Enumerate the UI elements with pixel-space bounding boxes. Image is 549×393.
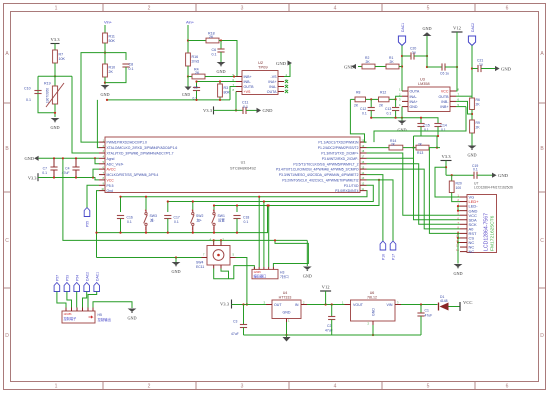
resistor R9 <box>470 120 475 133</box>
resistor R6 <box>470 98 475 110</box>
wire <box>375 66 386 68</box>
svg-text:+VS: +VS <box>244 90 251 94</box>
svg-text:INA+: INA+ <box>410 100 418 104</box>
MCU pin R5 P3.5/T1/T0CLKO/SS_4/PWM5/PWMFLT_2 <box>360 163 367 165</box>
wire <box>104 77 106 85</box>
svg-text:2K: 2K <box>354 104 359 108</box>
resistor R10 <box>103 64 108 77</box>
wire <box>449 306 461 308</box>
wire R13 right <box>429 147 437 149</box>
svg-text:R7: R7 <box>59 53 64 57</box>
svg-text:TP09: TP09 <box>258 65 268 70</box>
connector pin DAC1 <box>94 283 100 292</box>
svg-text:GND: GND <box>410 105 418 109</box>
svg-text:R8: R8 <box>356 90 360 94</box>
wire riser to R14/R13 row <box>413 136 415 148</box>
wire R8 left drop to MCU P1.1 <box>350 99 366 142</box>
svg-text:P55: P55 <box>86 221 90 227</box>
resistor R2 <box>358 66 362 68</box>
svg-text:HT7333: HT7333 <box>279 295 292 299</box>
header H5 <box>62 311 95 323</box>
svg-text:50K: 50K <box>109 39 116 43</box>
svg-text:0.1: 0.1 <box>212 53 217 57</box>
wire P53 to H5 <box>67 292 72 308</box>
wire H3 pin2 from key1 rail <box>258 197 260 267</box>
svg-text:2: 2 <box>148 6 151 12</box>
wire key3 drops <box>213 206 215 211</box>
capacitor C4 <box>72 166 79 168</box>
svg-text:2K: 2K <box>209 35 214 39</box>
svg-text:0.1: 0.1 <box>244 220 249 224</box>
svg-text:6: 6 <box>506 6 509 12</box>
svg-text:GND: GND <box>276 61 287 66</box>
svg-text:LCD12864-FM1721625ct6: LCD12864-FM1721625ct6 <box>474 186 513 190</box>
svg-text:DAC2: DAC2 <box>471 23 475 32</box>
svg-text:0.1: 0.1 <box>174 220 179 224</box>
svg-text:INB+: INB+ <box>244 75 252 79</box>
wire <box>187 66 189 77</box>
resistor R13 <box>416 145 429 150</box>
svg-text:EC11: EC11 <box>196 265 204 269</box>
wire VCC rail <box>38 178 99 180</box>
connector pin DAC2 <box>84 283 90 292</box>
svg-text:C10: C10 <box>24 87 31 91</box>
svg-text:Ain+: Ain+ <box>186 20 195 25</box>
gnd flag (Agnd rail) <box>34 156 38 161</box>
svg-text:2: 2 <box>148 384 151 390</box>
wire branch to VG <box>435 167 460 197</box>
wire <box>403 147 416 149</box>
svg-text:78L12: 78L12 <box>367 295 377 299</box>
svg-text:Gnd: Gnd <box>107 189 114 193</box>
svg-text:P57: P57 <box>56 275 60 281</box>
node Vin divider tap <box>104 52 106 54</box>
MCU pin R2 P1.2/ADC2/PWM2P/SS/T2 <box>360 147 367 149</box>
svg-text:U1: U1 <box>241 161 246 165</box>
svg-text:C17: C17 <box>174 215 180 219</box>
svg-text:VIN: VIN <box>387 303 393 307</box>
svg-text:INB-: INB- <box>244 80 252 84</box>
resistor R18 (feedback top) <box>188 40 206 42</box>
svg-text:0.1: 0.1 <box>243 105 248 109</box>
svg-text:5: 5 <box>427 6 430 12</box>
resistor R16 shunt <box>186 53 191 66</box>
MCU pin R6 P3.4/T0/T1CLKO/MOSI_4/PWM4B_4/PWM5_2/CMPO <box>360 168 367 170</box>
svg-text:C6: C6 <box>212 48 217 52</box>
capacitor C3 <box>243 305 245 325</box>
svg-text:OUTA: OUTA <box>410 90 420 94</box>
svg-text:ADC_Vref+: ADC_Vref+ <box>107 162 124 166</box>
resistor R12 <box>379 97 390 102</box>
svg-text:P3.5/T1/T0CLKO/SS_4/PWM5/PWMFL: P3.5/T1/T0CLKO/SS_4/PWM5/PWMFLT_2 <box>293 162 358 166</box>
svg-text:P3.4/T0/T1CLKO/MOSI_4/PWM4B_4/: P3.4/T0/T1CLKO/MOSI_4/PWM4B_4/PWM5_2/CMP… <box>276 168 359 172</box>
thermistor R19 <box>54 76 56 86</box>
connector pin P57 <box>54 283 60 292</box>
wire C14 bottoms riser right <box>436 136 438 148</box>
wire <box>38 76 55 113</box>
MCU pin L7 MCLKO/RST/SS_3/PWM6_2/P5.4 <box>99 174 105 176</box>
svg-text:OUTB: OUTB <box>439 95 450 99</box>
capacitor C12 <box>370 99 372 107</box>
svg-text:C16: C16 <box>127 215 133 219</box>
wire INB- jog to divider node <box>456 101 472 114</box>
wire <box>38 75 72 77</box>
ground (R9) <box>468 146 477 149</box>
svg-text:GND: GND <box>127 316 136 321</box>
MCU pin L2 XTALO/MCLKO_2/RXD_3/PWM4P/ADC6/P1.6 <box>99 147 105 149</box>
gnd flag + R2 R1 divider <box>351 64 356 69</box>
MCU pin R10 P3.0/RXD/INT4 <box>360 190 367 192</box>
svg-text:OUT: OUT <box>274 303 282 307</box>
wire <box>54 44 56 51</box>
wire <box>471 96 473 98</box>
svg-text:LM358: LM358 <box>418 82 430 86</box>
svg-text:P3.6/INT2/RXD_2/CMP-: P3.6/INT2/RXD_2/CMP- <box>322 157 359 161</box>
wire P3.5 to LCD SCK <box>367 164 461 225</box>
wire <box>104 43 106 64</box>
svg-text:0.1: 0.1 <box>387 111 392 115</box>
svg-text:C8: C8 <box>129 63 134 67</box>
node <box>220 39 222 41</box>
node <box>104 82 106 84</box>
ground (LCD) <box>454 264 463 267</box>
wire +VS down to V3.3/C11 node <box>235 92 237 111</box>
capacitor C6 <box>220 41 222 50</box>
MCU pin R4 P3.6/INT2/RXD_2/CMP- <box>360 157 367 159</box>
ground (thermistor) <box>51 118 60 121</box>
ground (U3) <box>401 118 403 121</box>
svg-text:GND: GND <box>283 311 291 315</box>
wire wrap rail key2 <box>168 185 373 201</box>
svg-text:1907/3950: 1907/3950 <box>46 88 50 103</box>
svg-text:GND: GND <box>467 153 476 158</box>
wire OUTB chain: R6 <box>456 95 472 97</box>
svg-text:MCLKO/RST/SS_3/PWM6_2/P5.4: MCLKO/RST/SS_3/PWM6_2/P5.4 <box>107 173 159 177</box>
svg-text:C4: C4 <box>65 166 69 170</box>
wire gnd rail 2 <box>63 158 307 240</box>
svg-text:4: 4 <box>334 6 337 12</box>
svg-text:IN: IN <box>295 303 299 307</box>
svg-text:V12: V12 <box>322 285 331 290</box>
wire SW4 pins up to rail <box>213 240 215 241</box>
svg-text:H5: H5 <box>98 313 102 317</box>
wire <box>445 161 447 176</box>
svg-text:GND: GND <box>453 271 462 276</box>
wire wrap rail key3 <box>214 180 379 206</box>
wire P3.6 to LCD SDA <box>367 157 414 159</box>
svg-text:GND: GND <box>263 108 274 113</box>
wire -VS to GND flag <box>284 63 290 77</box>
svg-text:GND: GND <box>397 128 406 133</box>
svg-text:SW4: SW4 <box>196 261 203 265</box>
ground (C6) <box>217 62 226 65</box>
svg-text:C1: C1 <box>425 309 429 313</box>
svg-text:2K: 2K <box>195 71 200 75</box>
no-connect INA- <box>285 85 288 88</box>
wire OUTB loop <box>230 87 236 100</box>
MCU pin L8 VCC <box>99 179 105 181</box>
capacitor C17 <box>164 215 171 217</box>
svg-text:Agnd: Agnd <box>107 157 115 161</box>
node <box>187 39 189 41</box>
wire MCU Gnd wrap to key rail <box>97 191 100 258</box>
rotary encoder SW4 EC11 <box>207 246 230 266</box>
svg-text:V3.3: V3.3 <box>203 108 213 113</box>
svg-text:GND: GND <box>372 308 376 316</box>
svg-text:C18: C18 <box>243 215 249 219</box>
svg-text:C6 1u: C6 1u <box>440 72 449 76</box>
svg-text:LCD12864-7567: LCD12864-7567 <box>484 213 490 251</box>
svg-text:1: 1 <box>55 6 58 12</box>
connector pin P16 <box>380 241 386 250</box>
svg-text:0.1: 0.1 <box>26 98 31 102</box>
capacitor C7 <box>50 166 57 168</box>
wire DAC1 down to OUTA <box>401 46 403 92</box>
svg-text:C15: C15 <box>424 124 430 128</box>
capacitor C10 <box>34 90 41 92</box>
svg-text:47uF: 47uF <box>425 314 433 318</box>
capacitor C15 <box>402 118 421 124</box>
svg-text:7针口: 7针口 <box>280 274 289 279</box>
svg-text:XTALO/MCLKO_2/RXD_3/PWM4P/ADC6: XTALO/MCLKO_2/RXD_3/PWM4P/ADC6/P1.6 <box>107 146 178 150</box>
MCU pin R3 P1.3/INT3/TXD_2/CMP+ <box>360 152 367 154</box>
svg-text:GND: GND <box>422 26 431 31</box>
svg-text:12345: 12345 <box>254 270 262 274</box>
MCU pin R7 P3.3/INT1/MESO_4/I2CSDA_4/PWM4N_4/PWMET2 <box>360 174 367 176</box>
wire <box>187 25 189 53</box>
wire <box>446 174 474 176</box>
wire LED-/GND tie <box>457 206 459 211</box>
wire <box>54 63 56 76</box>
capacitor C1 <box>420 305 422 314</box>
MCU pin R9 P3.1/TXD <box>360 184 367 186</box>
wire thermistor tap to MCU P1.7 <box>72 76 99 153</box>
svg-text:0.1: 0.1 <box>362 111 367 115</box>
power flag VCC <box>459 302 461 311</box>
wire <box>399 66 402 68</box>
svg-text:P53: P53 <box>66 275 70 281</box>
svg-text:FM1721625CT6: FM1721625CT6 <box>490 215 496 251</box>
svg-text:INA-: INA- <box>269 85 277 89</box>
capacitor C20 <box>402 55 411 57</box>
resistor R11 <box>103 33 108 43</box>
svg-text:2K: 2K <box>476 126 481 130</box>
wire INB- row <box>197 81 237 83</box>
wire U6 gnd to rail <box>372 325 374 335</box>
MCU pin L10 Gnd <box>99 190 105 192</box>
wire SW4 left pin <box>97 257 202 259</box>
wire U3 GND pin drop <box>401 107 403 118</box>
svg-text:OUTB: OUTB <box>244 85 255 89</box>
wire P54 to H5 <box>76 292 78 308</box>
svg-text:GND: GND <box>24 156 34 161</box>
connector pin P55 <box>84 208 90 217</box>
svg-text:VCC: VCC <box>441 90 449 94</box>
wire H3 pin3 from key2 rail <box>263 202 265 268</box>
ground (Ain divider) <box>187 77 189 87</box>
svg-text:C8: C8 <box>194 86 198 90</box>
svg-text:STC8H8K64S2: STC8H8K64S2 <box>230 167 256 171</box>
svg-text:SW3: SW3 <box>150 214 157 218</box>
svg-text:GND: GND <box>216 69 225 74</box>
resistor R7 <box>53 50 58 63</box>
resistor R1 <box>386 64 399 69</box>
node <box>54 112 56 114</box>
wire Vin tap to MCU P1.0 <box>81 53 105 143</box>
gnd flag (U2 -VS) <box>288 61 293 66</box>
svg-text:GND: GND <box>171 269 180 274</box>
wire filter gnd rail <box>371 117 402 119</box>
MCU pin L5 ADC_Vref+ <box>99 163 105 165</box>
wire H5 gnd pin <box>93 302 132 308</box>
svg-text:DAC1: DAC1 <box>95 272 99 281</box>
resistor R20 <box>451 175 453 181</box>
svg-text:R9: R9 <box>476 121 480 125</box>
wire <box>471 133 473 146</box>
ground (C20) up arrow <box>426 55 428 57</box>
wire INB+ stub <box>456 106 466 108</box>
capacitor C16 <box>117 215 124 217</box>
svg-text:V3.3: V3.3 <box>28 175 37 180</box>
capacitor C13 <box>395 99 397 107</box>
svg-text:INB-: INB- <box>441 100 449 104</box>
wire AVCC jog <box>93 169 99 177</box>
wire DAC1 to H5 <box>88 292 97 308</box>
wire <box>366 98 379 100</box>
capacitor C11 decoupling <box>242 107 244 114</box>
wire P3.4 to LCD A0 <box>367 169 461 229</box>
svg-text:GND: GND <box>182 93 190 97</box>
ground (key rail) <box>306 240 308 266</box>
wire wrap rail key1 <box>121 191 368 197</box>
wire DAC2 to H5 <box>83 292 87 308</box>
svg-text:SW2: SW2 <box>196 214 203 218</box>
svg-text:控制输出: 控制输出 <box>98 317 112 322</box>
svg-text:V3.3: V3.3 <box>441 154 451 159</box>
capacitor C8 (input filter) <box>196 82 198 88</box>
svg-text:R11: R11 <box>109 35 115 39</box>
svg-text:0.1: 0.1 <box>42 171 47 175</box>
svg-text:DAC2: DAC2 <box>85 272 89 281</box>
power gnd rail (bottom) <box>244 334 422 336</box>
svg-text:1u: 1u <box>412 50 416 54</box>
wire <box>214 109 244 111</box>
svg-text:VOUT: VOUT <box>353 303 364 307</box>
svg-text:3: 3 <box>241 384 244 390</box>
connector pin P53 <box>64 283 70 292</box>
wire <box>477 174 492 176</box>
svg-text:C7: C7 <box>43 166 47 170</box>
connector pin P17 <box>390 241 396 250</box>
svg-text:D: D <box>5 333 9 339</box>
svg-text:INB+: INB+ <box>440 105 448 109</box>
svg-text:VCC: VCC <box>463 300 472 305</box>
wire H3 pin4 from key3 rail <box>268 206 270 268</box>
svg-text:0.1: 0.1 <box>127 220 132 224</box>
wire Agnd rail <box>39 157 99 159</box>
svg-text:2K: 2K <box>476 103 481 107</box>
svg-text:D: D <box>540 333 544 339</box>
svg-text:1u: 1u <box>479 62 483 66</box>
capacitor C5 1u <box>441 63 443 70</box>
svg-text:P54: P54 <box>75 275 79 281</box>
wire <box>104 25 106 33</box>
svg-text:控制端子: 控制端子 <box>64 316 78 321</box>
gnd flag (C11) <box>257 108 262 113</box>
wire R12 to INA- <box>389 96 402 99</box>
svg-text:V12: V12 <box>453 26 462 31</box>
svg-text:5: 5 <box>427 384 430 390</box>
svg-text:100: 100 <box>456 186 462 190</box>
switch SW1 <box>213 210 215 213</box>
capacitor C14 <box>421 118 438 124</box>
svg-text:P1.2/ADC2/PWM2P/SS/T2: P1.2/ADC2/PWM2P/SS/T2 <box>318 146 359 150</box>
wire ADC_Vref+ jog <box>95 158 99 164</box>
wire SW4 bottom loop to H3 pin1 <box>214 266 255 279</box>
svg-text:PWM1P/RXD2/ADC0/P1.0: PWM1P/RXD2/ADC0/P1.0 <box>107 141 147 145</box>
svg-text:GND: GND <box>501 66 512 71</box>
svg-text:C14: C14 <box>441 124 447 128</box>
wire INB+ sense to MCU <box>374 107 466 143</box>
svg-text:123456: 123456 <box>64 313 73 316</box>
wire SW4 right pin down to V3.3 node <box>236 258 247 305</box>
svg-text:2mΩ: 2mΩ <box>192 60 200 64</box>
ground (H5) <box>128 309 137 312</box>
wire <box>445 66 457 68</box>
wire H3 pin5 loop to gnd rail <box>273 240 308 267</box>
svg-text:P17: P17 <box>392 254 396 260</box>
svg-text:C3: C3 <box>233 320 237 324</box>
resistor R14 (on MCU P1.2 row) <box>367 147 390 149</box>
svg-text:10K: 10K <box>59 57 66 61</box>
svg-text:加+: 加+ <box>197 218 202 223</box>
svg-text:4: 4 <box>334 384 337 390</box>
svg-text:4148: 4148 <box>440 299 448 303</box>
MCU pin L1 PWM1P/RXD2/ADC0/P1.0 <box>99 141 105 143</box>
svg-text:C2: C2 <box>327 324 331 328</box>
wire SW4 bottom right stub shelf <box>221 269 229 279</box>
MCU pin L4 Agnd <box>99 157 105 159</box>
wire U4.IN to U6.VOUT <box>307 304 351 306</box>
MCU U1 STC8H8K64S2 <box>105 137 360 193</box>
header H3 <box>252 269 278 278</box>
svg-text:P5.5: P5.5 <box>107 184 114 188</box>
svg-text:2K: 2K <box>390 60 395 64</box>
MCU pin L6 AVCC <box>99 168 105 170</box>
capacitor C9 (across R10) <box>105 53 126 60</box>
svg-text:AVCC: AVCC <box>107 168 117 172</box>
gnd flag (C19) <box>492 173 497 178</box>
wire key1 drops <box>120 197 122 212</box>
svg-text:1: 1 <box>55 384 58 390</box>
switch SW2 <box>192 210 194 213</box>
svg-text:0.1: 0.1 <box>473 168 478 172</box>
svg-text:80K: 80K <box>224 91 231 95</box>
svg-text:GND: GND <box>100 92 109 97</box>
wire P3.2 to pin P17 <box>367 180 394 241</box>
wire R13 out to LCD RST <box>437 147 440 149</box>
svg-text:Vin+: Vin+ <box>104 20 113 25</box>
MCU pin L3 XTALI/TXD_3/PWM6_2/PWM4N/ADC7/P1.7 <box>99 152 105 154</box>
svg-text:R6: R6 <box>476 98 480 102</box>
svg-text:SW1: SW1 <box>218 214 225 218</box>
svg-text:2K: 2K <box>109 70 114 74</box>
wire <box>427 66 442 68</box>
svg-text:R19: R19 <box>44 82 51 86</box>
svg-text:R3: R3 <box>224 86 229 90</box>
wire P55 to MCU P5.5 <box>87 185 99 207</box>
capacitor C21 <box>472 68 478 70</box>
